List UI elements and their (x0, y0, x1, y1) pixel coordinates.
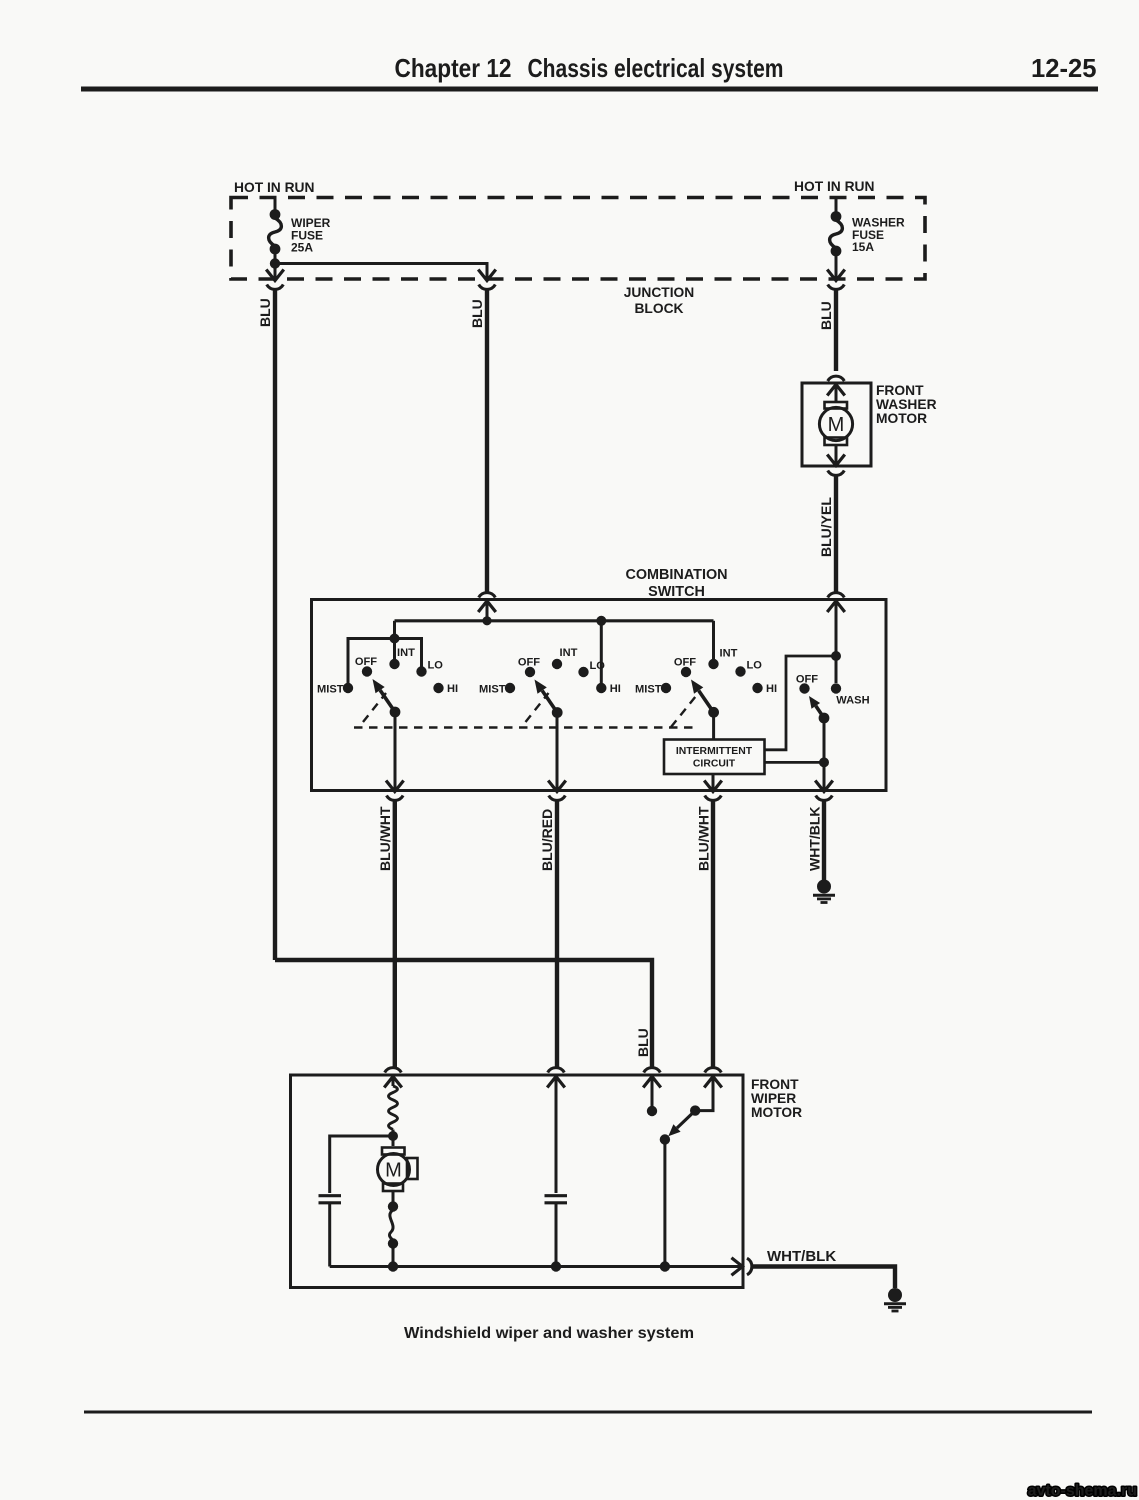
label HOT IN RUN (right) (794, 179, 875, 194)
wire BLU/YEL (834, 476, 838, 593)
svg-text:M: M (385, 1160, 402, 1182)
svg-text:Windshield wiper and washer sy: Windshield wiper and washer system (404, 1325, 694, 1342)
intermittent circuit box (664, 740, 765, 775)
svg-text:15A: 15A (852, 240, 874, 254)
wire label BLU (middle) (469, 299, 485, 328)
contact pole-2 OFF (518, 657, 540, 678)
svg-text:SWITCH: SWITCH (648, 584, 705, 600)
contact pole-3 OFF (674, 657, 696, 678)
wire label BLU (wiper motor feed) (635, 1028, 651, 1057)
junction node breaker/ground bus (388, 1261, 398, 1271)
wire washer output (823, 718, 826, 790)
connector front-wiper-motor BLU/WHT-2 input (705, 1068, 722, 1087)
svg-text:JUNCTION: JUNCTION (624, 285, 695, 300)
junction node washer output / intermittent (819, 757, 829, 767)
motor M1 (washer) brushes (825, 402, 848, 445)
contact pole-2 MIST (479, 683, 515, 696)
svg-text:Chapter 12: Chapter 12 (395, 53, 512, 83)
connector front-washer-motor output (828, 445, 845, 475)
connector combination-switch washer output (816, 782, 833, 801)
junction node (bus / BLU input) (482, 616, 491, 625)
contact park-switch arm anchor (690, 1105, 700, 1115)
svg-text:OFF: OFF (355, 656, 377, 668)
svg-text:BLU: BLU (469, 299, 485, 328)
ground (combination switch) (813, 880, 835, 903)
connector combination-switch pole-1 output (387, 782, 404, 801)
svg-text:INT: INT (397, 647, 415, 659)
ground bus wire (330, 1265, 742, 1268)
connector junction-block middle output (479, 271, 496, 290)
header rule (81, 87, 1098, 92)
contact pole-1 LO (416, 660, 443, 677)
wire pole-2 HI drop (600, 621, 603, 683)
wire label BLU (right) (818, 301, 834, 330)
svg-text:LO: LO (747, 660, 763, 672)
fuse F2 WASHER FUSE 15A (830, 211, 905, 256)
wire washer feed to intermittent circuit (765, 656, 836, 750)
svg-text:Chassis electrical system: Chassis electrical system (528, 53, 784, 83)
junction node motor top (388, 1131, 398, 1141)
wire pole-3 to intermittent circuit (712, 712, 715, 740)
switch arm pole-1 (373, 679, 401, 717)
contact washer OFF (796, 674, 818, 694)
page header chapter title (395, 53, 784, 83)
contact pole-3 INT (708, 648, 737, 670)
svg-text:INT: INT (720, 648, 738, 660)
svg-text:HOT IN RUN: HOT IN RUN (234, 180, 315, 195)
svg-text:BLU/WHT: BLU/WHT (377, 806, 393, 871)
front washer motor box (802, 383, 871, 466)
wire BLU/WHT-2 drop to park arm (697, 1077, 713, 1111)
wire intermittent circuit to washer output (765, 761, 824, 764)
svg-text:HOT IN RUN: HOT IN RUN (794, 179, 875, 194)
wire BLU drop to park contact (651, 1077, 654, 1106)
armature winding (squiggle) (389, 1077, 398, 1136)
wire pole-1 feed drop (393, 621, 396, 640)
branch wire to middle junction-block output (275, 262, 487, 280)
connector front-washer-motor input (828, 376, 845, 403)
wire motor-top to capacitor C1 (330, 1136, 393, 1193)
svg-text:MIST: MIST (479, 684, 506, 696)
svg-text:MIST: MIST (317, 684, 344, 696)
svg-text:FRONT: FRONT (876, 383, 924, 398)
svg-text:M: M (828, 414, 845, 436)
switch arm pole-3 (691, 680, 719, 718)
wire BLU/RED (pole-2) (555, 800, 559, 1068)
wire label BLU/YEL (818, 497, 834, 557)
svg-text:WASHER: WASHER (876, 397, 937, 412)
wire WHT/BLK (washer ground) (822, 800, 826, 880)
junction block (dashed boundary) (231, 198, 925, 280)
svg-text:INTERMITTENT: INTERMITTENT (676, 746, 753, 757)
svg-text:BLU/RED: BLU/RED (539, 809, 555, 871)
svg-text:BLU/YEL: BLU/YEL (818, 497, 834, 557)
label JUNCTION BLOCK (624, 285, 695, 316)
wire label WHT/BLK (washer ground) (807, 806, 823, 871)
connector combination-switch BLU input (479, 593, 496, 611)
connector combination-switch intermittent output (705, 782, 722, 801)
svg-text:MOTOR: MOTOR (751, 1105, 802, 1120)
contact pole-3 HI (752, 683, 777, 695)
svg-text:BLOCK: BLOCK (634, 301, 683, 316)
wire feed bus inside switch (395, 602, 714, 621)
junction node park pivot (660, 1134, 670, 1144)
svg-text:OFF: OFF (674, 657, 696, 669)
svg-text:BLU: BLU (635, 1028, 651, 1057)
motor M2 (wiper) body (378, 1154, 410, 1186)
wire BLU (middle vertical) (485, 289, 489, 592)
page number 12-25 (1031, 53, 1097, 83)
contact pole-3 MIST (635, 683, 671, 696)
diagram caption (404, 1325, 694, 1342)
svg-text:WHT/BLK: WHT/BLK (767, 1248, 836, 1265)
wire BLU/WHT (intermittent) (711, 800, 715, 1068)
svg-text:12-25: 12-25 (1031, 53, 1097, 83)
wire BLU/WHT (pole-1) (393, 800, 397, 1068)
contact park-switch (BLU) (647, 1106, 657, 1116)
wire BLU/RED drop to capacitor C2 (555, 1077, 558, 1193)
capacitor C2 (545, 1196, 568, 1267)
motor M2 (wiper) brushes (382, 1148, 418, 1192)
wire WHT/BLK to ground (752, 1267, 895, 1289)
svg-text:LO: LO (590, 660, 606, 672)
junction node C2/ground bus (551, 1261, 561, 1271)
svg-text:WASH: WASH (836, 695, 869, 707)
label COMBINATION SWITCH (625, 567, 727, 600)
wire washer feed drop (835, 602, 838, 684)
svg-text:BLU/WHT: BLU/WHT (696, 806, 712, 871)
wire label BLU/WHT (intermittent) (696, 806, 712, 871)
contact pole-2 INT (552, 647, 578, 669)
switch arm washer (809, 696, 829, 723)
wire label WHT/BLK (wiper ground) (767, 1248, 836, 1265)
svg-text:MIST: MIST (635, 684, 662, 696)
connector combination-switch BLU/YEL input (828, 593, 845, 611)
junction node park/ground bus (660, 1261, 670, 1271)
switch arm pole-2 (535, 680, 563, 718)
svg-text:BLU: BLU (257, 298, 273, 327)
svg-text:avto-shema.ru: avto-shema.ru (1028, 1483, 1137, 1500)
contact pole-1 INT (389, 647, 415, 669)
wire hot feed to wiper fuse (274, 197, 277, 214)
circuit breaker (below motor) (388, 1191, 398, 1267)
svg-text:LO: LO (428, 660, 444, 672)
combination switch box (312, 600, 887, 791)
wire park pivot to ground bus (663, 1140, 666, 1267)
label HOT IN RUN (left) (234, 180, 315, 195)
svg-text:HI: HI (447, 683, 458, 695)
junction node (bus / HI-2 drop) (596, 616, 606, 626)
contact pole-2 HI (596, 683, 621, 695)
svg-text:INT: INT (560, 647, 578, 659)
wire BLU run to front wiper motor (275, 960, 652, 1068)
wire pole-2 output (556, 713, 559, 790)
svg-text:OFF: OFF (518, 657, 540, 669)
watermark avto-shema.ru (1028, 1483, 1137, 1500)
label FRONT WIPER MOTOR (751, 1077, 802, 1120)
contact washer WASH (831, 683, 870, 706)
connector combination-switch pole-2 output (549, 782, 566, 801)
svg-text:CIRCUIT: CIRCUIT (693, 759, 736, 770)
mechanical linkage (dashed) (354, 693, 696, 728)
connector junction-block right output (828, 271, 845, 290)
wire label BLU (left) (257, 298, 273, 327)
contact pole-1 MIST (317, 683, 353, 696)
connector front-wiper-motor ground output (733, 1258, 752, 1275)
contact pole-2 LO (578, 660, 605, 677)
label FRONT WASHER MOTOR (876, 383, 937, 426)
svg-text:MOTOR: MOTOR (876, 411, 927, 426)
svg-text:HI: HI (610, 683, 621, 695)
front wiper motor box (291, 1075, 744, 1288)
connector junction-block left output (267, 271, 284, 290)
wire below washer fuse (835, 251, 838, 280)
svg-text:HI: HI (766, 683, 777, 695)
svg-text:OFF: OFF (796, 674, 818, 686)
junction node pole-1 tie (390, 634, 400, 644)
svg-text:WIPER: WIPER (751, 1091, 796, 1106)
wire pole-1 output (394, 712, 397, 790)
footer rule (84, 1411, 1092, 1414)
connector front-wiper-motor BLU/RED input (548, 1068, 565, 1087)
ground (front wiper motor) (884, 1288, 906, 1311)
wire BLU (right vertical) (834, 289, 838, 371)
park switch arm (668, 1111, 695, 1137)
wire BLU (left vertical) (273, 289, 277, 960)
fuse F1 WIPER FUSE 25A (269, 209, 331, 254)
svg-text:COMBINATION: COMBINATION (625, 567, 727, 583)
contact pole-1 HI (433, 683, 458, 695)
junction node washer feed (831, 651, 841, 661)
svg-text:WHT/BLK: WHT/BLK (807, 806, 823, 871)
motor M1 (washer) body (819, 407, 852, 440)
connector front-wiper-motor BLU input (644, 1068, 661, 1087)
wire motor top lead (392, 1136, 395, 1146)
wire below wiper fuse with junction (270, 249, 280, 280)
wire hot feed to washer fuse (835, 197, 838, 216)
wire pole-1 bracket (MIST-INT-LO tie) (348, 639, 422, 684)
svg-text:FRONT: FRONT (751, 1077, 799, 1092)
wire label BLU/RED (539, 809, 555, 871)
contact pole-1 OFF (355, 656, 377, 677)
contact pole-3 LO (735, 660, 762, 677)
wire pole-3 INT drop (712, 621, 715, 659)
wire intermittent circuit output (712, 774, 715, 790)
wire label BLU/WHT (pole-1) (377, 806, 393, 871)
capacitor C1 (319, 1196, 342, 1267)
connector front-wiper-motor BLU/WHT input (385, 1068, 402, 1087)
svg-text:BLU: BLU (818, 301, 834, 330)
svg-text:25A: 25A (291, 241, 313, 255)
